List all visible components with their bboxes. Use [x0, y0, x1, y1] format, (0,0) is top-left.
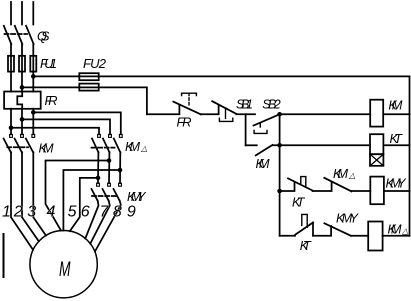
svg-text:KMY: KMY [386, 176, 407, 191]
svg-text:KM: KM [388, 222, 402, 237]
svg-text:1: 1 [2, 204, 11, 221]
svg-text:SB2: SB2 [262, 97, 281, 112]
svg-text:9: 9 [127, 204, 136, 221]
svg-text:KT: KT [300, 238, 312, 253]
svg-text:2: 2 [13, 204, 23, 221]
svg-text:△: △ [348, 171, 355, 180]
svg-text:7: 7 [100, 204, 110, 221]
svg-text:KMY: KMY [336, 211, 359, 226]
svg-text:FU2: FU2 [83, 56, 107, 71]
svg-text:FR: FR [177, 115, 192, 130]
svg-text:KT: KT [292, 195, 306, 210]
svg-text:6: 6 [81, 204, 90, 221]
svg-text:FU1: FU1 [40, 56, 57, 71]
svg-text:KMY: KMY [127, 189, 147, 204]
svg-text:KM: KM [39, 141, 54, 156]
svg-text:KM: KM [125, 139, 140, 154]
svg-text:FR: FR [45, 93, 58, 108]
svg-text:KM: KM [256, 156, 270, 171]
svg-text:KM: KM [388, 98, 402, 113]
svg-text:M: M [59, 258, 71, 281]
svg-text:△: △ [401, 227, 408, 236]
svg-text:5: 5 [68, 204, 77, 221]
svg-text:4: 4 [47, 204, 56, 221]
svg-text:KT: KT [390, 131, 404, 146]
svg-text:QS: QS [37, 29, 50, 44]
svg-text:KM: KM [333, 166, 348, 181]
svg-text:8: 8 [113, 204, 122, 221]
svg-text:△: △ [140, 144, 147, 153]
svg-text:SB1: SB1 [236, 97, 253, 112]
svg-text:3: 3 [27, 204, 36, 221]
